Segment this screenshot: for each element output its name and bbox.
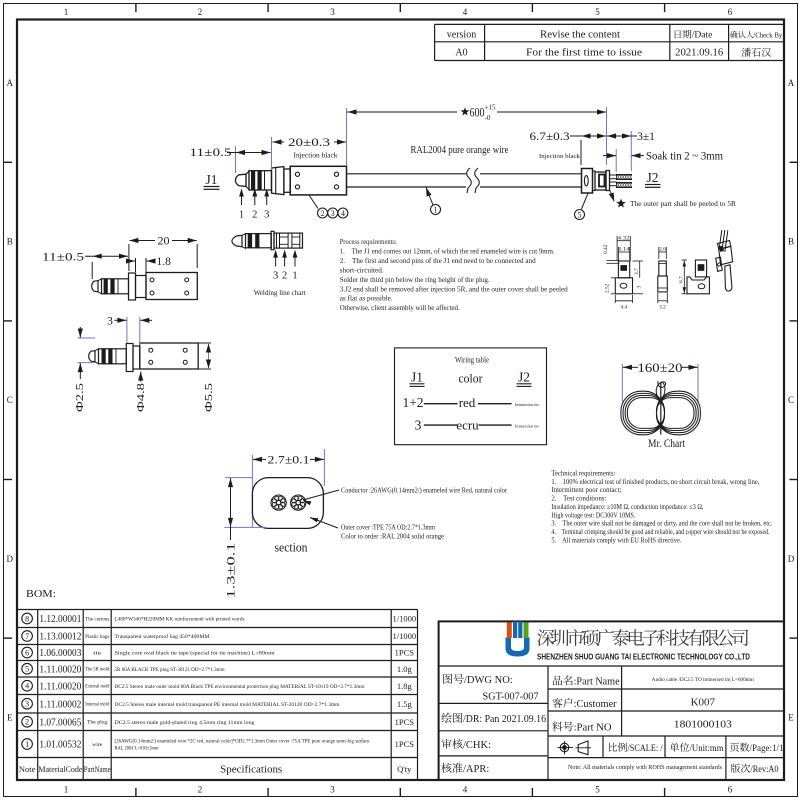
svg-text:/Page:1/1: /Page:1/1 xyxy=(750,743,784,754)
welding chart plug tip xyxy=(232,235,242,246)
svg-text:2: 2 xyxy=(252,210,257,221)
svg-text:Welding line chart: Welding line chart xyxy=(254,289,306,297)
detail B dim 3.2 xyxy=(657,293,659,303)
svg-text:[26AWG(0.14mm2/) enameled wire: [26AWG(0.14mm2/) enameled wire *2C red, … xyxy=(115,740,370,745)
svg-text:short-circuited.: short-circuited. xyxy=(340,265,384,274)
svg-text:1. 100% electrical test of: 1. 100% electrical test of finished prod… xyxy=(551,478,759,486)
svg-text:J2: J2 xyxy=(518,370,530,385)
svg-text:A0: A0 xyxy=(455,47,467,58)
svg-text:Φ2.5: Φ2.5 xyxy=(75,383,86,412)
svg-text:1/1000: 1/1000 xyxy=(392,631,416,641)
connector J2 flange xyxy=(606,171,610,191)
revision table xyxy=(435,23,784,25)
J1 detail view 2: collar xyxy=(129,273,136,300)
connector J2 neck xyxy=(593,171,596,191)
dimension 600 +15/-0 overall xyxy=(606,107,608,165)
leader outer cover xyxy=(310,518,338,529)
BOM row item 5 xyxy=(22,663,33,674)
svg-text:C: C xyxy=(788,395,794,405)
svg-text:1PCS: 1PCS xyxy=(395,648,415,658)
J2 terminal detail view B xyxy=(659,261,667,276)
svg-text:20±0.3: 20±0.3 xyxy=(288,135,330,149)
svg-text:1/1000: 1/1000 xyxy=(392,614,416,624)
connector J1 body holes xyxy=(295,172,299,176)
svg-text:1.8g: 1.8g xyxy=(397,681,413,691)
detail C dim 6.7 xyxy=(682,259,688,261)
svg-text:MaterialCode: MaterialCode xyxy=(38,764,82,774)
svg-text:4: 4 xyxy=(463,785,468,795)
svg-text:5: 5 xyxy=(25,665,29,674)
conductor right xyxy=(291,495,306,510)
svg-text::Part Name: :Part Name xyxy=(574,677,620,688)
svg-text:J1: J1 xyxy=(205,172,217,187)
dimension 20±0.3 injection black (J1) xyxy=(346,108,348,166)
cable break symbol xyxy=(467,168,472,193)
svg-text:3: 3 xyxy=(330,7,335,17)
svg-text:5: 5 xyxy=(578,211,582,220)
svg-text:1: 1 xyxy=(434,206,438,215)
svg-text:1: 1 xyxy=(292,271,297,282)
company logo xyxy=(506,622,530,657)
svg-text:2021.09.16: 2021.09.16 xyxy=(675,47,723,58)
cable cross-section outer cover xyxy=(252,478,323,529)
leader conductor xyxy=(303,490,339,500)
balloon 2 3 4 (J1 body) xyxy=(309,195,318,209)
BOM row item 1 xyxy=(22,739,33,750)
svg-text:/DWG NO:: /DWG NO: xyxy=(464,675,513,686)
svg-text:Immersion tin: Immersion tin xyxy=(515,424,539,429)
field unit xyxy=(670,743,679,752)
svg-text:wire: wire xyxy=(92,743,102,748)
svg-text:Insulation impedance: ≥10M Ω,: Insulation impedance: ≥10M Ω, conduction… xyxy=(551,503,703,511)
BOM table grid xyxy=(17,609,418,611)
balloon 1 (wire) xyxy=(426,187,433,205)
connector J1 plug rings xyxy=(246,171,249,189)
svg-text:L480*W340*H220MM KK reinforcem: L480*W340*H220MM KK reinforcement with p… xyxy=(115,618,245,623)
svg-text:5: 5 xyxy=(595,785,600,795)
svg-text:3.7: 3.7 xyxy=(634,268,640,275)
BOM row item 7 xyxy=(22,631,33,642)
svg-text:2. Test conditions:: 2. Test conditions: xyxy=(551,495,606,503)
svg-text:Otherwise, client assembly wil: Otherwise, client assembly will be affec… xyxy=(340,303,460,312)
svg-text:1.5g: 1.5g xyxy=(397,699,413,709)
svg-text:High voltage test: DC300V 10MS: High voltage test: DC300V 10MS. xyxy=(551,511,635,519)
svg-text:1: 1 xyxy=(239,210,244,221)
svg-text:8: 8 xyxy=(25,614,29,623)
BOM row item 6 xyxy=(22,647,33,658)
svg-text:Intermittent poor contact;: Intermittent poor contact; xyxy=(551,486,621,494)
svg-text:4. Terminal crimping should: 4. Terminal crimping should be good and … xyxy=(551,528,769,536)
dimension 160±20 (coil) xyxy=(621,364,623,402)
field customer xyxy=(552,698,562,708)
welding chart plug rings xyxy=(246,234,272,248)
svg-text:4: 4 xyxy=(25,682,29,691)
svg-text:Specifications: Specifications xyxy=(220,764,282,775)
connector J1 collar xyxy=(272,167,284,195)
svg-text:PartName: PartName xyxy=(84,764,111,774)
svg-text:2: 2 xyxy=(282,271,287,282)
dimension 3±1 (J2) xyxy=(615,149,617,172)
detail A dim 4.4 xyxy=(614,295,616,303)
svg-text:3: 3 xyxy=(331,209,335,218)
welding chart pin leaders 3 2 1 xyxy=(273,250,278,258)
detail A dim 4.32 xyxy=(616,236,618,261)
BOM row item 8 xyxy=(22,613,33,624)
svg-text:Solder the third pin below the: Solder the third pin below the ring heig… xyxy=(340,275,490,284)
connector J1 collar step xyxy=(284,169,290,192)
svg-text:Wiring table: Wiring table xyxy=(455,356,489,365)
svg-text:red: red xyxy=(459,395,476,410)
svg-text:6: 6 xyxy=(25,648,29,657)
svg-text:Process requirements:: Process requirements: xyxy=(340,237,397,246)
connector J2 boot hole xyxy=(584,176,588,186)
connector J2 boot xyxy=(582,169,593,194)
dimension 2.7±0.1 (section) xyxy=(251,455,253,527)
svg-text:5R 80A BLACK TPE plug ST-30121: 5R 80A BLACK TPE plug ST-30121 OD=2.7*1.… xyxy=(115,668,225,673)
J1 detail view 3: rings xyxy=(99,349,127,364)
svg-text:J2: J2 xyxy=(646,170,658,185)
svg-text:Q'ty: Q'ty xyxy=(397,764,412,774)
svg-text:11±0.5: 11±0.5 xyxy=(42,251,84,263)
svg-text:/CHK:: /CHK: xyxy=(463,740,491,751)
svg-text:A: A xyxy=(788,78,795,88)
welding chart collar xyxy=(271,231,274,249)
svg-text:Φ5.5: Φ5.5 xyxy=(204,383,215,412)
svg-text:Mr. Chart: Mr. Chart xyxy=(648,438,686,450)
field rev xyxy=(731,764,740,773)
svg-text:3: 3 xyxy=(273,271,278,282)
svg-text:6.7±0.3: 6.7±0.3 xyxy=(530,131,570,143)
svg-text:DC2.5 Stereo male outer mold 8: DC2.5 Stereo male outer mold 80A Black T… xyxy=(115,685,365,690)
svg-text::Customer: :Customer xyxy=(574,699,617,710)
title block grid xyxy=(439,621,784,780)
svg-text:-0: -0 xyxy=(485,114,491,122)
connector J2 body xyxy=(595,172,606,190)
svg-text:1.0g: 1.0g xyxy=(397,664,413,674)
connector J1 plug tip xyxy=(235,174,246,186)
svg-text:D: D xyxy=(788,554,795,564)
svg-text:1: 1 xyxy=(25,740,29,749)
svg-text:2.52: 2.52 xyxy=(605,283,611,293)
svg-text:J1: J1 xyxy=(411,370,423,385)
svg-text:BOM:: BOM: xyxy=(26,589,56,600)
svg-text:/Check By: /Check By xyxy=(753,30,782,39)
svg-text:B: B xyxy=(7,237,13,247)
svg-text:1.01.00532: 1.01.00532 xyxy=(39,740,81,751)
svg-text:External mold: External mold xyxy=(85,685,110,690)
J1 detail view 2: rings xyxy=(102,279,129,294)
svg-text:Note: Note xyxy=(19,764,36,774)
svg-text:1801000103: 1801000103 xyxy=(674,719,733,731)
svg-text:6: 6 xyxy=(728,7,733,17)
svg-text:DC2.5 Stereo male internal mol: DC2.5 Stereo male internal mold transpar… xyxy=(115,703,340,708)
field DWG NO xyxy=(443,674,452,684)
svg-text:Plastic bags: Plastic bags xyxy=(85,635,109,640)
company name CN xyxy=(537,629,554,646)
J1 detail view 3: collar xyxy=(126,344,133,372)
dimension 1.3±0.1 (section) xyxy=(225,477,253,479)
welding chart body segments xyxy=(274,233,303,248)
svg-text:5. All materials comply wit: 5. All materials comply with EU RoHS dir… xyxy=(551,536,681,544)
coiled cable xyxy=(621,391,665,435)
dimension 11±0.5 (view 2) xyxy=(91,262,93,279)
svg-text:Injection black: Injection black xyxy=(294,152,339,160)
svg-text:Single core oval black tie tap: Single core oval black tie tape (special… xyxy=(115,652,275,657)
svg-text:/SCALE: /: /SCALE: / xyxy=(628,743,663,754)
dimension Φ4.8 (view 3) xyxy=(140,372,142,382)
svg-text:Revise the content: Revise the content xyxy=(540,29,620,40)
svg-text:A: A xyxy=(7,78,14,88)
J2 terminal isometric view xyxy=(719,230,722,252)
J1 detail view 2: plug tip xyxy=(92,281,98,292)
svg-text:3. The outer wire shall not: 3. The outer wire shall not be damaged o… xyxy=(551,520,772,528)
svg-text:/DR: Pan 2021.09.16: /DR: Pan 2021.09.16 xyxy=(463,714,546,725)
svg-text:The 5R mold: The 5R mold xyxy=(85,668,110,673)
dimension Φ2.5 (view 3) xyxy=(78,337,96,339)
svg-text:Internal mold: Internal mold xyxy=(85,703,110,708)
svg-text:Technical requirements:: Technical requirements: xyxy=(551,470,615,478)
svg-text:7: 7 xyxy=(25,632,29,641)
BOM row item 4 xyxy=(22,680,33,691)
svg-text:The cartons: The cartons xyxy=(85,617,109,622)
svg-text:ecru: ecru xyxy=(456,418,479,433)
svg-text:1.06.00003: 1.06.00003 xyxy=(39,648,81,659)
svg-text:SGT-007-007: SGT-007-007 xyxy=(483,691,539,703)
svg-text:2: 2 xyxy=(198,7,203,17)
balloon 5 (J2 boot) xyxy=(582,193,589,209)
svg-text::Part NO: :Part NO xyxy=(574,723,612,734)
svg-text:1.11.00020: 1.11.00020 xyxy=(39,681,81,692)
connector J1 overmold body xyxy=(290,166,346,195)
svg-text:1.12.00001: 1.12.00001 xyxy=(39,614,81,625)
J2 terminal detail view C xyxy=(695,260,706,277)
svg-text:3.2: 3.2 xyxy=(659,305,666,311)
svg-text:RAL 2004 L=630±3mm: RAL 2004 L=630±3mm xyxy=(115,747,159,752)
svg-text:version: version xyxy=(447,29,476,40)
svg-text:Φ4.8: Φ4.8 xyxy=(136,383,147,412)
svg-text:Outer cover :TPE 75A OD:2.7*1.: Outer cover :TPE 75A OD:2.7*1.3mm xyxy=(341,524,435,532)
connector J2 tinned ends xyxy=(617,175,632,180)
dimension 6.7±0.3 (J2) xyxy=(580,140,582,165)
svg-text:Injection black: Injection black xyxy=(539,153,581,160)
svg-text:6.7: 6.7 xyxy=(679,276,685,283)
field APR xyxy=(441,763,451,773)
svg-text:/Unit:mm: /Unit:mm xyxy=(690,743,724,754)
BOM row item 2 xyxy=(22,716,33,727)
svg-text:The outer part shall be peeled: The outer part shall be peeled to 5R xyxy=(630,200,736,208)
field part no xyxy=(552,721,562,731)
svg-text:K007: K007 xyxy=(691,697,716,709)
J1 detail view 3: plug tip xyxy=(89,351,95,362)
svg-text:+15: +15 xyxy=(485,104,496,112)
svg-text:C: C xyxy=(7,395,13,405)
svg-text:2: 2 xyxy=(25,718,29,727)
svg-text:4: 4 xyxy=(341,209,345,218)
dimension Φ5.5 (view 3) xyxy=(198,342,211,344)
svg-text:5: 5 xyxy=(595,7,600,17)
svg-text:as flat as possible.: as flat as possible. xyxy=(340,294,393,303)
svg-text:4.4: 4.4 xyxy=(621,305,628,311)
field page xyxy=(730,743,739,752)
svg-text:2: 2 xyxy=(320,209,324,218)
svg-text:1+2: 1+2 xyxy=(402,395,423,410)
svg-text:DC2.5 stereo male gold-plated: DC2.5 stereo male gold-plated ring 4.5mm… xyxy=(115,721,256,726)
leader: outer part peeled note xyxy=(610,191,614,202)
svg-text:3: 3 xyxy=(415,418,422,433)
connector J2 bare wires xyxy=(610,175,617,179)
coil binding tie xyxy=(660,382,662,435)
svg-text:11±0.5: 11±0.5 xyxy=(190,145,232,159)
svg-text:1.11.00020: 1.11.00020 xyxy=(39,664,81,675)
svg-text:/Date: /Date xyxy=(692,31,713,41)
BOM row item 3 xyxy=(22,698,33,709)
svg-text:Conductor :26AWG(0.14mm2/) ena: Conductor :26AWG(0.14mm2/) enameled wire… xyxy=(341,487,508,495)
svg-text:1: 1 xyxy=(64,785,69,795)
J1 pin arrows 1 2 3 xyxy=(241,196,243,205)
svg-text:6: 6 xyxy=(728,785,733,795)
dimension 11±0.5 (J1) xyxy=(235,146,237,173)
conductor left xyxy=(271,495,286,510)
svg-text:3: 3 xyxy=(107,316,113,328)
wire (cable) xyxy=(347,173,467,175)
svg-text:1: 1 xyxy=(64,7,69,17)
svg-text:section: section xyxy=(275,540,308,555)
svg-text:SHENZHEN SHUO GUANG TAI ELECTR: SHENZHEN SHUO GUANG TAI ELECTRONIC TECHN… xyxy=(537,652,750,662)
detail B dim 2.6 xyxy=(658,247,660,259)
svg-text:E: E xyxy=(7,712,13,722)
J1 detail view 2: body xyxy=(146,273,197,300)
svg-text:Soak tin 2 ~ 3mm: Soak tin 2 ~ 3mm xyxy=(646,151,723,163)
svg-text:20: 20 xyxy=(158,234,170,248)
field scale xyxy=(609,743,617,752)
svg-text:1.3±0.1: 1.3±0.1 xyxy=(226,542,238,598)
svg-text:Audio cable /DC2.5 TO immersed: Audio cable /DC2.5 TO immersed tin L=600… xyxy=(652,678,754,683)
wiring table box xyxy=(395,348,547,445)
svg-text:color: color xyxy=(459,371,484,386)
svg-text:2.7±0.1: 2.7±0.1 xyxy=(268,452,310,466)
svg-text:tie: tie xyxy=(93,651,101,656)
svg-text:E: E xyxy=(788,712,794,722)
svg-text:3: 3 xyxy=(25,700,29,709)
svg-text:1.11.00002: 1.11.00002 xyxy=(39,699,81,710)
svg-text:600: 600 xyxy=(470,104,485,119)
svg-text:/Rev:A0: /Rev:A0 xyxy=(751,764,779,775)
field part name xyxy=(553,676,562,686)
svg-text:4: 4 xyxy=(463,7,468,17)
field DR xyxy=(441,713,451,723)
svg-text:3: 3 xyxy=(637,286,643,289)
svg-text:B: B xyxy=(788,237,794,247)
dimension 1.8 (view 2) xyxy=(135,258,137,272)
svg-text:The plug: The plug xyxy=(87,721,109,726)
svg-text:3±1: 3±1 xyxy=(637,131,655,143)
svg-text:3.J2 end shall be removed afte: 3.J2 end shall be removed after injectio… xyxy=(340,284,568,293)
detail A dim 3 xyxy=(633,293,644,295)
projection symbols xyxy=(560,743,569,752)
dimension 20 (view 2) xyxy=(128,244,130,271)
J1 detail view 3: body xyxy=(140,343,198,369)
J2 terminal detail view A body xyxy=(618,261,629,278)
svg-text:3: 3 xyxy=(330,785,335,795)
svg-text:Color to order :RAL 2004 solid: Color to order :RAL 2004 solid orange xyxy=(341,533,444,541)
svg-text:160±20: 160±20 xyxy=(638,361,683,375)
svg-text:1.13.00012: 1.13.00012 xyxy=(39,632,81,643)
svg-text:1PCS: 1PCS xyxy=(395,739,415,749)
svg-text:Transparent waterproof bag 450: Transparent waterproof bag 450*400MM xyxy=(115,635,211,640)
svg-text:/APR:: /APR: xyxy=(463,764,489,775)
detail A dim 3.7 xyxy=(633,260,644,262)
dimension soak tin 2~3mm xyxy=(603,155,616,157)
svg-text:1PCS: 1PCS xyxy=(395,717,415,727)
field CHK xyxy=(441,739,451,749)
svg-text:2. The first and second pin: 2. The first and second pins of the J1 e… xyxy=(340,256,536,265)
svg-text:2: 2 xyxy=(198,785,203,795)
svg-text:Immersion tin: Immersion tin xyxy=(515,402,539,407)
svg-text:0.42: 0.42 xyxy=(603,244,609,254)
svg-text:RAL2004 pure orange wire: RAL2004 pure orange wire xyxy=(411,145,509,156)
svg-text:1. The J1 end comes out 12m: 1. The J1 end comes out 12mm, of which t… xyxy=(340,246,555,255)
svg-text:For the first time to issue: For the first time to issue xyxy=(526,47,643,58)
svg-text:3: 3 xyxy=(264,210,269,221)
svg-text:Note: All materials comply wit: Note: All materials comply with ROHS man… xyxy=(568,764,723,771)
svg-text:D: D xyxy=(7,554,14,564)
svg-text:1.8: 1.8 xyxy=(157,256,172,268)
dimension 3 (view 3) xyxy=(126,317,128,343)
svg-text:1.07.00065: 1.07.00065 xyxy=(39,717,81,728)
